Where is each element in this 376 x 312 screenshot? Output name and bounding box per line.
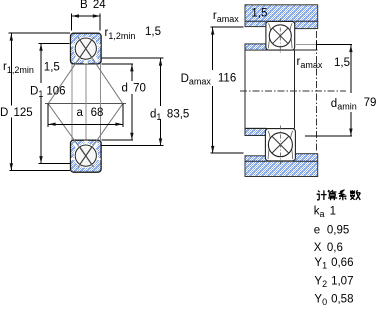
housing block top (245, 5, 318, 27)
dimension Damax: extension lines (211, 27, 244, 153)
ball top (75, 38, 96, 59)
heading: calculation factors (CJK strokes) (317, 190, 361, 200)
dimension damin: extension lines (296, 44, 316, 46)
svg-text:D 125: D 125 (0, 107, 33, 119)
svg-text:Y00,58: Y00,58 (314, 294, 353, 308)
shaft seat line bottom (245, 127, 295, 129)
bottom section ring body (71, 140, 102, 172)
shaft right end (294, 50, 296, 128)
svg-text:116: 116 (218, 73, 236, 85)
dimension d: line with arrows (130, 64, 133, 140)
axis centerline (240, 90, 346, 92)
cover ring top right (295, 21, 318, 28)
shaft shoulder bottom (245, 128, 266, 135)
contact line lower-right to right vertex (78, 104, 123, 168)
contact line upper-right to right vertex (78, 37, 123, 104)
dimension D1: extension lines (38, 43, 70, 163)
svg-text:a 68: a 68 (77, 107, 104, 119)
bearing section bottom (right fig) (265, 126, 295, 165)
svg-text:1,5: 1,5 (334, 57, 350, 69)
bore silhouette left (71, 64, 73, 140)
contact line lower-left to left vertex (48, 104, 93, 168)
svg-text:1,5: 1,5 (44, 62, 60, 74)
dimension D: line with arrows (10, 33, 13, 170)
svg-text:X 0,6: X 0,6 (314, 242, 343, 254)
bearing section top (right fig) (266, 19, 295, 54)
dimension damin extension bottom (305, 135, 352, 137)
dimension D: extension lines (8, 33, 70, 170)
dimension d1: extension lines (102, 58, 164, 146)
bearing axis vertical (85, 64, 87, 140)
svg-text:B 24: B 24 (80, 0, 106, 11)
r fillet tick (315, 42, 317, 51)
top section ring body (71, 33, 102, 64)
dimension damin: line with arrows (349, 45, 352, 136)
dimension Damax: line with arrows (211, 27, 214, 153)
housing block bottom (245, 156, 318, 177)
svg-text:d 70: d 70 (122, 83, 146, 95)
bore silhouette right (99, 64, 101, 140)
dimension B: line with arrows (72, 14, 101, 17)
svg-text:1,5: 1,5 (145, 26, 161, 38)
shaft left face (244, 44, 246, 136)
svg-text:Y21,07: Y21,07 (314, 276, 353, 290)
ball top contact X (80, 40, 92, 57)
pitch line (45, 103, 126, 105)
svg-text:79: 79 (364, 97, 376, 109)
dimension d1: line with arrows (159, 58, 162, 145)
shaft seat line top (266, 49, 318, 51)
joint centerline vertical (315, 31, 317, 151)
dimension D1: line with arrows (39, 44, 42, 164)
dimension a: line with arrows (48, 123, 123, 126)
svg-text:1,5: 1,5 (251, 8, 267, 20)
ball bottom contact X (80, 147, 92, 164)
dimension B: extension lines (72, 14, 101, 31)
ball bottom (75, 145, 96, 166)
dimension a: extension drops from vertices (48, 104, 123, 127)
svg-text:D1106: D1106 (30, 86, 66, 100)
shaft shoulder top (245, 44, 266, 50)
dimension damin extension top (316, 44, 352, 46)
svg-text:d183,5: d183,5 (150, 109, 189, 123)
cover ring bottom right (295, 154, 318, 162)
dimension d: extension lines (102, 64, 134, 140)
contact line upper-left to left vertex (48, 37, 93, 104)
svg-text:Y10,66: Y10,66 (314, 257, 353, 271)
svg-text:e 0,95: e 0,95 (314, 225, 349, 237)
